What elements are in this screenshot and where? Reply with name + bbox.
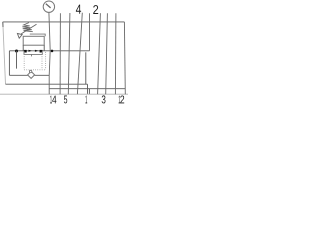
wire left drop dark stub bbox=[2, 22, 4, 27]
flow arrow on rail B left bbox=[29, 50, 32, 52]
wire long line 2 bbox=[98, 13, 101, 94]
wire long line 3 bbox=[106, 13, 108, 94]
wire rail C corner down to border bbox=[48, 75, 50, 94]
junction dot on rail B at gauge line bbox=[51, 50, 54, 53]
wire long line 4 bbox=[77, 13, 82, 95]
wire rail B right riser up to top bbox=[89, 13, 91, 51]
wire left drop from rail A bbox=[3, 22, 6, 84]
wire from left dot down bbox=[16, 51, 18, 69]
wire from rail B junction down to rail C corner bbox=[49, 51, 50, 76]
wire rail D corner down to port 1 bbox=[87, 84, 89, 94]
adjustment arrow shaft bbox=[21, 24, 36, 34]
background bbox=[0, 0, 128, 104]
port label 12 bbox=[119, 96, 121, 104]
wire long line 14 bbox=[59, 13, 61, 94]
port label 1 bbox=[85, 96, 87, 104]
connection square left on rail B bbox=[24, 50, 27, 53]
connection square right on rail B bbox=[40, 50, 43, 53]
wire port-1 stub from rail E bbox=[88, 89, 90, 95]
junction dot on rail B left bbox=[15, 50, 18, 53]
port label 5 bbox=[64, 95, 67, 103]
dashed enclosure box bbox=[24, 52, 45, 70]
gauge stem wire down to rail B (slightly slanted) bbox=[49, 12, 50, 50]
wire rail C (drain line) bbox=[9, 74, 49, 76]
regulator R1 body bbox=[23, 36, 44, 45]
port label 4 bbox=[76, 5, 81, 14]
frame border line (drawing area edge) bbox=[0, 93, 128, 95]
gauge needle bbox=[46, 4, 51, 8]
pressure gauge Z1 bbox=[43, 1, 54, 12]
wire rail B bbox=[9, 50, 89, 52]
wire long line 5 bbox=[68, 13, 70, 94]
port label 14 bbox=[50, 96, 52, 104]
wire rail B left drop bbox=[8, 51, 10, 76]
port label 3 bbox=[102, 95, 106, 103]
manifold stub bbox=[31, 54, 33, 56]
wire V1 from rail B end area down to rail D bbox=[85, 52, 87, 84]
wire long unlabeled line bbox=[114, 13, 117, 94]
regulator legs to rail B bbox=[23, 45, 44, 51]
regulator spring bbox=[22, 23, 32, 32]
separator ball bbox=[29, 70, 31, 72]
wire rail A (top supply line) bbox=[3, 21, 125, 23]
wire rail E bbox=[49, 88, 125, 90]
water separator diamond bbox=[28, 71, 35, 78]
adjustment arrowhead bbox=[17, 34, 22, 39]
flow arrow on rail B right bbox=[35, 50, 38, 52]
wire rail D (bottom supply) bbox=[6, 83, 88, 85]
port label 2 bbox=[93, 5, 98, 14]
regulator step ledge bbox=[30, 34, 45, 36]
wire line 12 (from rail A right end) bbox=[123, 22, 126, 94]
manifold shallow box under rail B bbox=[24, 51, 42, 55]
